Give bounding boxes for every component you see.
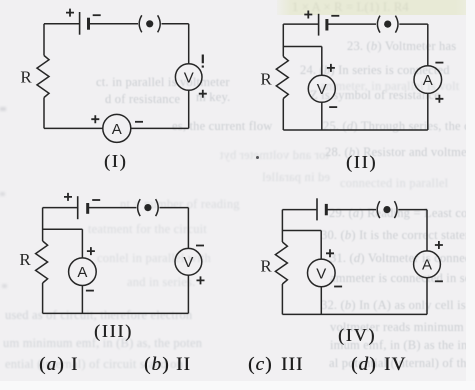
ammeter II plus label xyxy=(435,95,443,103)
voltmeter V (circuit III) xyxy=(175,248,202,275)
voltmeter V (circuit IV) xyxy=(308,259,336,287)
caption (III) xyxy=(94,321,133,342)
wire left top I xyxy=(43,24,45,56)
key K3 (plug key) xyxy=(138,199,159,216)
ammeter II minus label xyxy=(435,62,443,64)
voltmeter I plus label xyxy=(199,90,207,98)
wire below ammeter III xyxy=(81,286,83,314)
voltmeter V (circuit I) xyxy=(175,64,202,91)
battery B3 minus label xyxy=(92,199,100,201)
battery B4 xyxy=(317,198,326,220)
label R (circuit I) xyxy=(20,68,32,87)
voltmeter II plus label xyxy=(327,64,335,72)
wire battery-to-key III xyxy=(88,207,137,209)
wire top-left segment IV xyxy=(282,209,316,211)
white fade edges xyxy=(466,0,475,390)
ammeter IV plus label xyxy=(435,241,443,249)
svg-text:V: V xyxy=(317,81,327,98)
wire bottom II xyxy=(283,129,428,131)
wire top-left segment II xyxy=(283,23,318,25)
caption (I) xyxy=(104,151,127,172)
ammeter I minus label xyxy=(135,121,143,123)
battery B2 xyxy=(319,14,327,36)
battery B3 xyxy=(78,196,88,219)
wire voltmeter stub IV xyxy=(282,231,321,260)
label R (circuit II) xyxy=(260,70,272,89)
caption (II) xyxy=(346,152,377,173)
wire right top I xyxy=(188,24,190,64)
svg-text:R: R xyxy=(260,70,272,89)
ammeter IV minus label xyxy=(435,280,443,282)
wire left bottom IV xyxy=(281,284,283,314)
ammeter A (circuit II) xyxy=(414,66,442,94)
wire bottom IV xyxy=(282,313,427,315)
key K4 (plug key) xyxy=(377,201,397,218)
wire left bottom III xyxy=(42,283,44,313)
wire below voltmeter II xyxy=(321,102,323,130)
ammeter III minus label xyxy=(86,290,94,292)
wire below voltmeter IV xyxy=(320,287,322,315)
voltmeter IV plus label xyxy=(326,249,334,257)
faint bleed-through text xyxy=(347,39,456,54)
voltmeter I minus tick xyxy=(202,55,204,68)
wire battery-to-key II xyxy=(327,23,376,25)
battery B3 plus label xyxy=(64,193,72,201)
voltmeter V (circuit II) xyxy=(308,75,335,102)
battery B1 minus label xyxy=(93,14,101,16)
key K1 (plug key) xyxy=(139,15,160,32)
resistor R (circuit II) xyxy=(276,57,288,99)
voltmeter III minus label xyxy=(196,245,204,247)
battery B2 minus label xyxy=(331,15,339,17)
wire left top IV xyxy=(281,210,283,242)
wire battery-to-key IV xyxy=(326,209,376,211)
wire right top IV xyxy=(426,210,428,251)
resistor R (circuit IV) xyxy=(275,242,287,284)
svg-text:R: R xyxy=(20,68,32,87)
wire key-to-corner I xyxy=(162,23,189,25)
wire bottom right I xyxy=(131,127,189,129)
voltmeter II minus label xyxy=(329,106,337,108)
wire ammeter stub III xyxy=(43,229,83,258)
wire voltmeter stub II xyxy=(283,47,322,76)
ammeter A (circuit III) xyxy=(69,258,97,286)
svg-text:R: R xyxy=(19,250,31,269)
battery B1 plus label xyxy=(66,9,74,17)
voltmeter IV minus label xyxy=(334,286,342,288)
svg-text:A: A xyxy=(77,264,87,281)
wire left bottom II xyxy=(282,99,284,131)
svg-text:V: V xyxy=(184,69,194,86)
svg-text:A: A xyxy=(423,72,433,89)
svg-text:V: V xyxy=(316,265,326,282)
svg-text:A: A xyxy=(422,257,432,274)
svg-text:V: V xyxy=(183,254,193,271)
wire right bottom I xyxy=(188,90,190,128)
battery B1 xyxy=(80,12,89,35)
ammeter A (circuit IV) xyxy=(414,251,441,278)
ammeter A (circuit I) xyxy=(103,114,131,142)
resistor R (circuit I) xyxy=(37,56,49,98)
wire right bottom II xyxy=(427,93,429,130)
resistor R (circuit III) xyxy=(36,241,48,283)
key K2 (plug key) xyxy=(377,16,398,33)
label R (circuit III) xyxy=(19,250,31,269)
wire key-to-corner II xyxy=(399,23,428,25)
wire right bottom IV xyxy=(426,278,428,315)
wire right top II xyxy=(427,24,429,66)
options row xyxy=(39,354,65,376)
voltmeter III plus label xyxy=(197,276,205,284)
battery B2 plus label xyxy=(304,11,312,19)
wire bottom III xyxy=(43,312,189,314)
wire key-to-corner III xyxy=(160,207,189,209)
wire left top II xyxy=(282,24,284,56)
wire top-left segment I xyxy=(44,23,79,25)
wire right bottom III xyxy=(187,275,189,313)
highlighted strip top right xyxy=(277,0,475,15)
svg-text:R: R xyxy=(260,257,272,276)
label R (circuit IV) xyxy=(260,257,272,276)
wire battery-to-key I xyxy=(89,23,139,25)
wire left top III xyxy=(42,208,44,241)
wire left bottom I xyxy=(43,98,45,129)
ammeter I plus label xyxy=(91,115,99,123)
caption (IV) xyxy=(338,325,376,346)
svg-text:A: A xyxy=(112,121,122,138)
wire top-left segment III xyxy=(43,207,77,209)
wire right top III xyxy=(187,208,189,249)
ammeter III plus label xyxy=(87,247,95,255)
wire bottom left I xyxy=(44,127,103,129)
wire key-to-corner IV xyxy=(398,209,427,211)
